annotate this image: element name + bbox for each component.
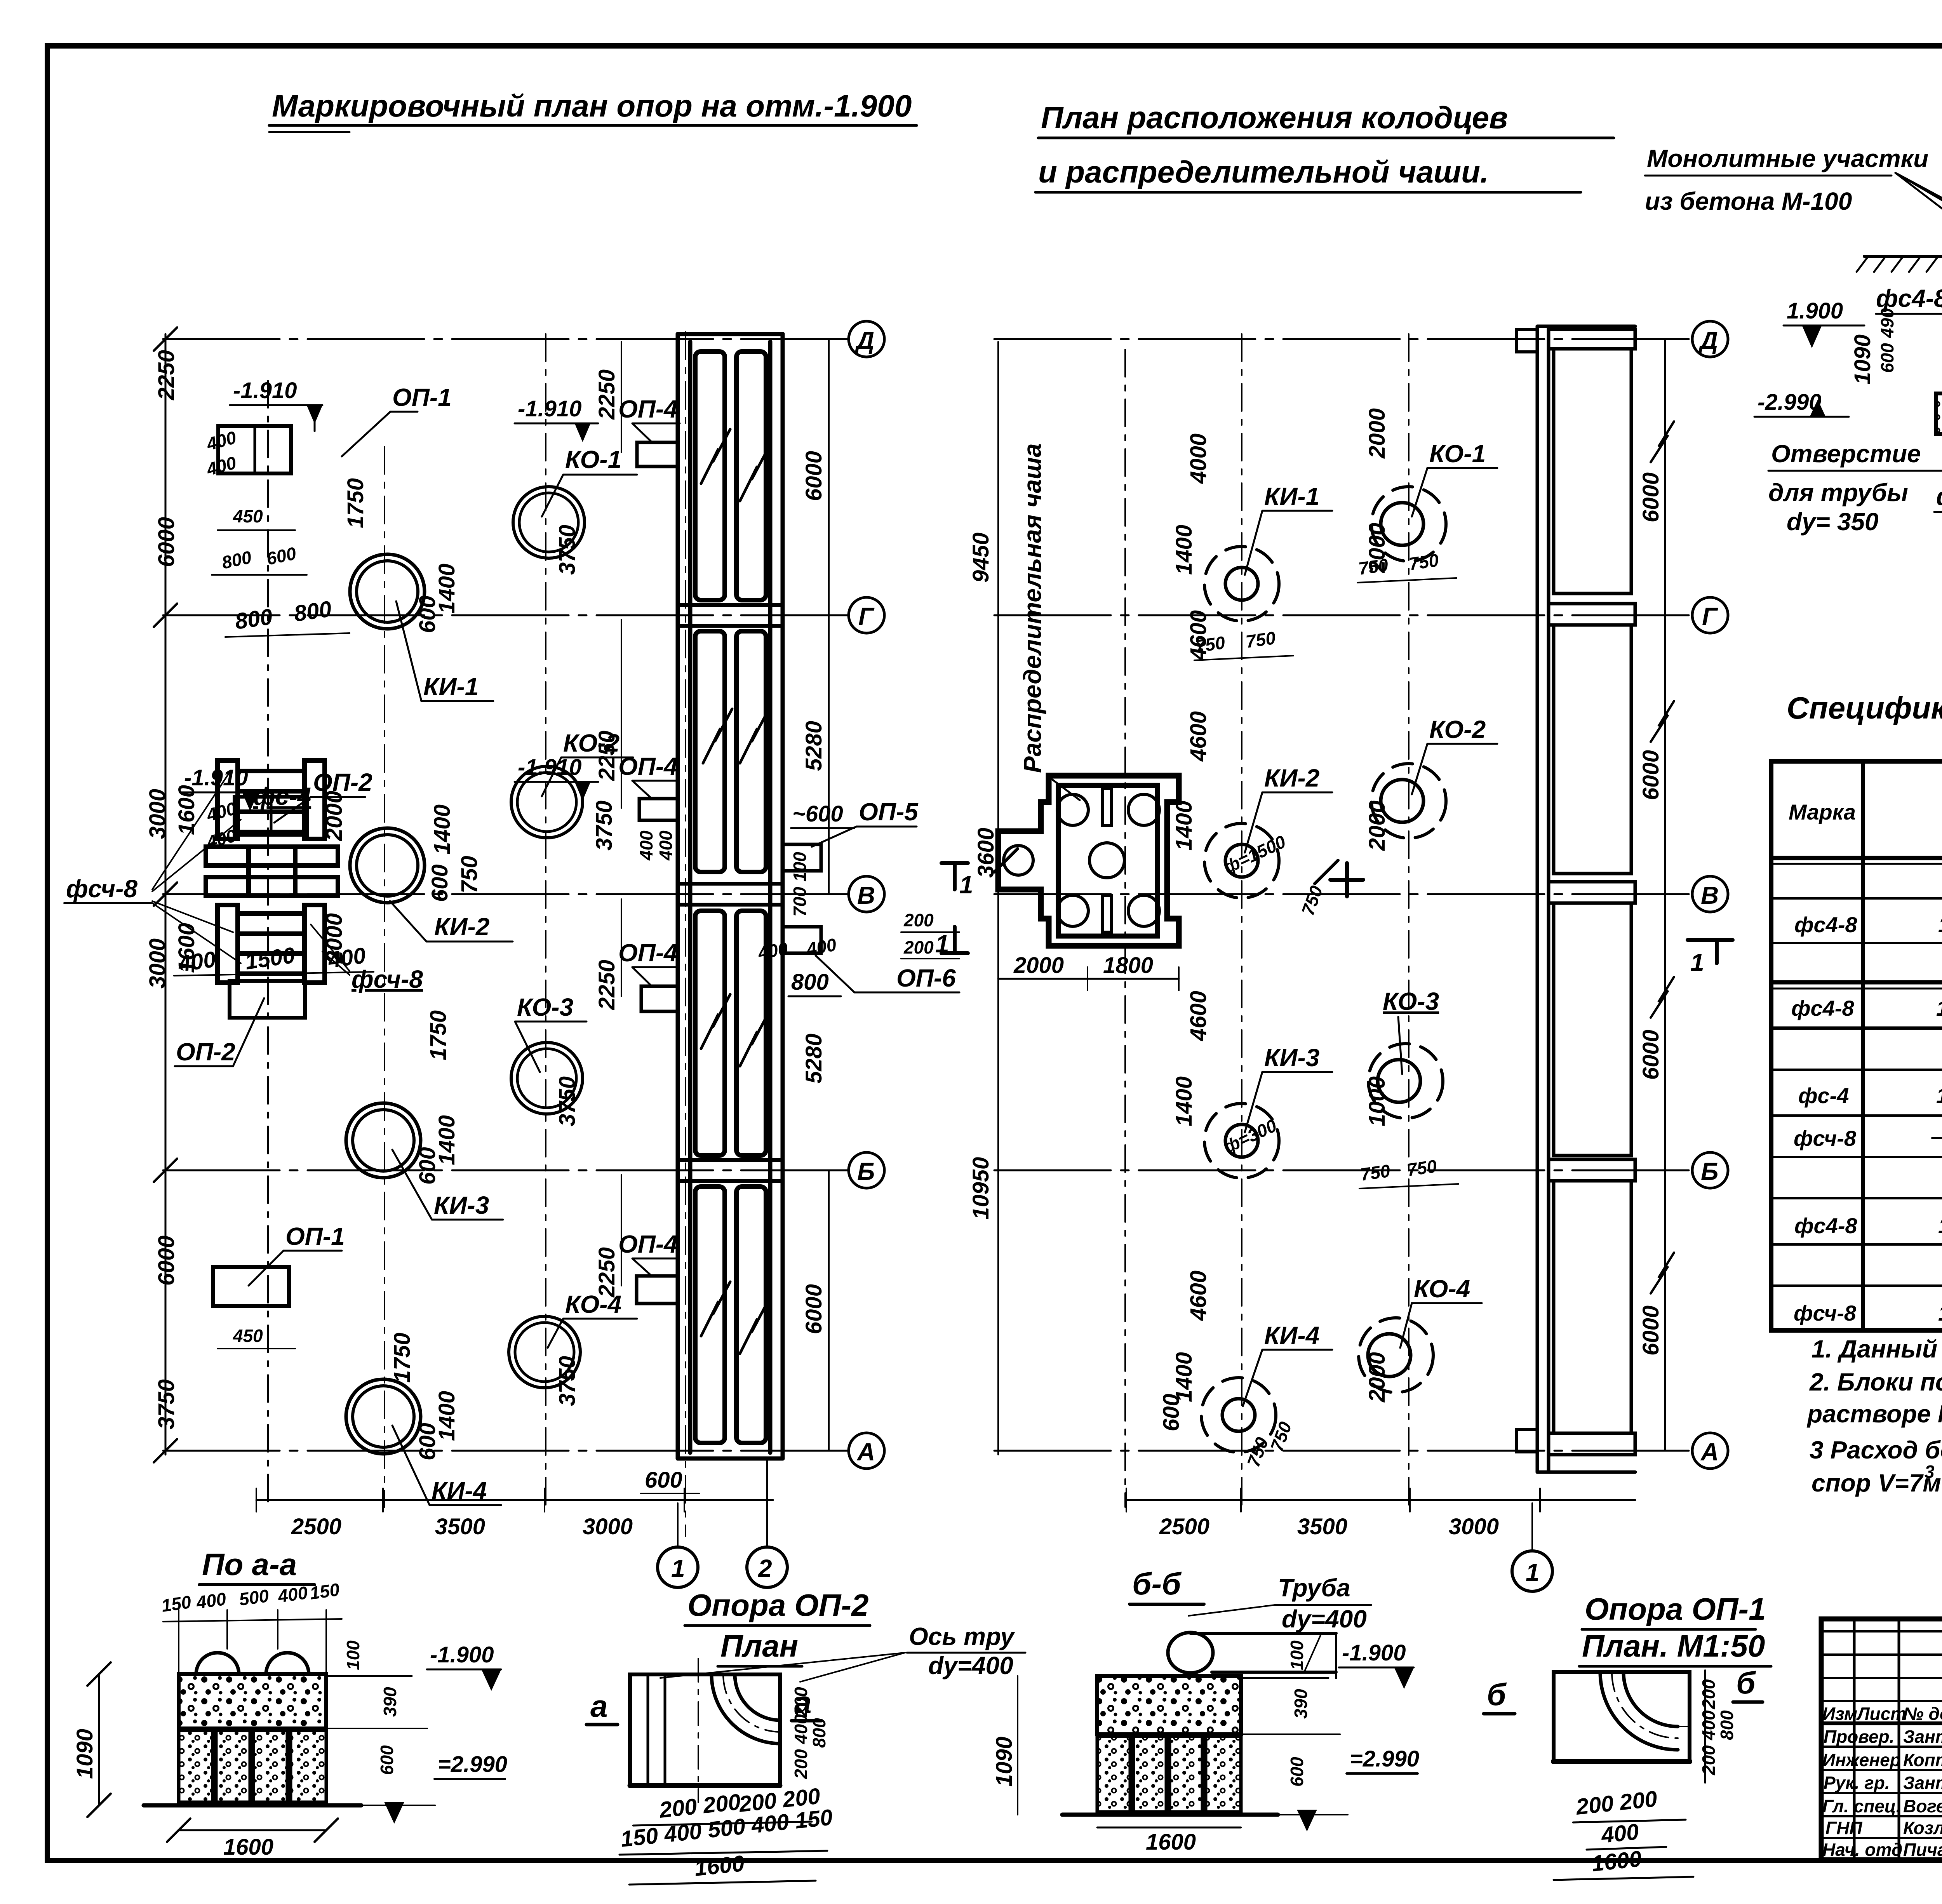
well КО-2 [511, 766, 583, 838]
svg-text:КО-2: КО-2 [1429, 715, 1486, 743]
svg-text:100: 100 [1287, 1640, 1307, 1670]
svg-text:1750: 1750 [390, 1333, 415, 1383]
svg-text:1500: 1500 [244, 943, 297, 975]
svg-text:600: 600 [427, 864, 452, 902]
svg-text:а: а [590, 1689, 608, 1723]
distribution bowl [998, 776, 1179, 946]
svg-text:Г: Г [1702, 602, 1718, 630]
svg-text:400: 400 [791, 1714, 811, 1744]
svg-text:1750: 1750 [343, 478, 368, 528]
svg-text:3000: 3000 [145, 789, 170, 839]
axis Д line [994, 338, 1693, 340]
svg-text:1600: 1600 [1590, 1846, 1643, 1876]
well КО-1 (dashed) [1371, 487, 1446, 561]
svg-text:2250: 2250 [594, 731, 619, 781]
tank cells bay Д-Г [695, 352, 725, 600]
svg-text:1: 1 [1690, 949, 1704, 976]
axis Г circle [849, 597, 884, 633]
svg-text:КИ-1: КИ-1 [423, 673, 479, 701]
svg-text:1.116-1 Выпуск-1: 1.116-1 Выпуск-1 [1936, 1083, 1942, 1108]
svg-text:Г: Г [858, 602, 875, 630]
tank cells bay В-Б [695, 911, 725, 1156]
svg-text:6000: 6000 [1638, 1030, 1664, 1080]
svg-text:6000: 6000 [801, 1284, 827, 1334]
svg-text:КИ-3: КИ-3 [434, 1191, 489, 1219]
well КО-4 [1359, 1318, 1433, 1392]
svg-text:фсч-8: фсч-8 [352, 965, 423, 993]
section mark 1-1 upper [941, 861, 968, 865]
svg-text:№ докум.: № докум. [1903, 1704, 1942, 1724]
tank cells bay Б-А [695, 1187, 725, 1443]
column lines [1861, 761, 1865, 1330]
well КИ-1 [350, 554, 425, 629]
bottom dim chain [1126, 1499, 1635, 1501]
svg-text:4600: 4600 [1186, 711, 1211, 762]
svg-text:1090: 1090 [72, 1729, 97, 1779]
svg-text:Опора ОП-2: Опора ОП-2 [687, 1588, 868, 1622]
svg-text:750: 750 [1267, 1419, 1296, 1454]
right dim chain of strip [828, 339, 830, 894]
svg-text:Б: Б [1701, 1157, 1718, 1185]
svg-text:ОП-4: ОП-4 [618, 752, 678, 780]
bowl circles [1057, 794, 1088, 825]
svg-text:фс4-8: фс4-8 [1876, 284, 1942, 312]
svg-text:1: 1 [1526, 1558, 1540, 1586]
middle tank strip [1537, 326, 1635, 1472]
svg-text:4000: 4000 [1186, 433, 1211, 484]
pipe cylinder [1168, 1632, 1213, 1673]
svg-text:ОП-1: ОП-1 [392, 383, 452, 411]
axis Д circle [849, 321, 884, 357]
bottom thick edge [630, 1783, 780, 1788]
section mark 1-1 below В [1688, 938, 1733, 942]
svg-text:2500: 2500 [1159, 1514, 1209, 1539]
title block outer [1821, 1619, 1942, 1860]
svg-text:500: 500 [238, 1586, 270, 1610]
svg-text:1600: 1600 [174, 785, 199, 835]
svg-text:3000: 3000 [1449, 1514, 1499, 1539]
axis А line [163, 1450, 849, 1452]
svg-text:1.116-1 Выпуск-1: 1.116-1 Выпуск-1 [1936, 996, 1942, 1020]
svg-text:400: 400 [176, 947, 218, 977]
ОП-4 supports on strip [637, 442, 678, 466]
svg-text:Коптев: Коптев [1903, 1750, 1942, 1770]
svg-text:из бетона М-100: из бетона М-100 [1645, 187, 1852, 215]
svg-text:10950: 10950 [968, 1157, 994, 1220]
svg-text:400: 400 [1600, 1819, 1640, 1848]
svg-text:800: 800 [233, 604, 274, 634]
axis В circle [1692, 876, 1728, 912]
svg-text:150: 150 [308, 1579, 341, 1603]
column centerline 1 [1124, 350, 1126, 1507]
svg-text:Д: Д [854, 326, 874, 354]
svg-text:600: 600 [265, 543, 298, 569]
svg-text:5280: 5280 [801, 1034, 827, 1084]
svg-text:600: 600 [415, 595, 440, 633]
left table horizontals [1821, 1630, 1942, 1632]
svg-text:Зантберг: Зантберг [1903, 1773, 1942, 1793]
svg-text:3750: 3750 [154, 1379, 179, 1429]
axis В line [163, 893, 849, 895]
svg-text:600: 600 [1287, 1757, 1307, 1787]
column centerline 2 (KI) [1241, 334, 1242, 1507]
svg-text:800: 800 [1717, 1710, 1737, 1740]
well КО-3 [1368, 1044, 1443, 1118]
svg-text:КИ-2: КИ-2 [434, 913, 489, 941]
svg-text:400: 400 [1698, 1710, 1719, 1740]
ground line left [1864, 255, 1942, 258]
svg-text:4600: 4600 [1186, 610, 1211, 661]
svg-text:Марка: Марка [1789, 800, 1856, 824]
svg-text:для трубы: для трубы [1768, 479, 1908, 506]
svg-text:~600: ~600 [792, 801, 843, 827]
axis band Г [1549, 604, 1635, 625]
axis Б circle [849, 1152, 884, 1188]
plan rect [1554, 1672, 1690, 1761]
support ОП-1 bottom rect [213, 1267, 289, 1306]
svg-text:750: 750 [1359, 1161, 1392, 1185]
svg-text:фс4-8: фс4-8 [1794, 1213, 1857, 1238]
svg-text:490: 490 [1877, 308, 1897, 338]
svg-text:спор V=7м: спор V=7м [1811, 1469, 1941, 1497]
svg-text:1: 1 [671, 1554, 685, 1582]
svg-text:200: 200 [791, 1687, 811, 1717]
bottom dim chain [256, 1499, 773, 1501]
svg-text:1: 1 [935, 930, 949, 958]
concrete stipple [1097, 1676, 1241, 1734]
well КО-4 [509, 1316, 580, 1388]
well КИ-3 [346, 1103, 421, 1178]
svg-text:фс-4: фс-4 [253, 782, 311, 810]
svg-text:План. М1:50: План. М1:50 [1582, 1629, 1765, 1663]
support ОП-2 rect a [235, 797, 307, 835]
svg-text:750: 750 [1298, 883, 1327, 918]
bay cell Б-А [1554, 1181, 1631, 1433]
svg-text:2000: 2000 [322, 791, 347, 841]
tank cells bay Г-В [695, 631, 725, 872]
axis Г line [994, 614, 1693, 616]
svg-text:750: 750 [1406, 1156, 1438, 1180]
svg-text:dy=400: dy=400 [1282, 1605, 1367, 1633]
axis Б line [163, 1170, 849, 1171]
svg-text:Спецификация железобетонных: Спецификация железобетонных и бетонных э… [1787, 691, 1942, 725]
bowl slots [1102, 788, 1112, 825]
svg-text:ОП-2: ОП-2 [176, 1038, 235, 1066]
svg-text:600: 600 [377, 1745, 397, 1775]
svg-text:=2.990: =2.990 [438, 1752, 507, 1777]
svg-text:2000: 2000 [1364, 801, 1390, 851]
svg-text:-1.910: -1.910 [518, 755, 581, 780]
svg-text:1400: 1400 [1171, 525, 1197, 575]
svg-text:400: 400 [656, 830, 676, 861]
svg-text:Пичахчи: Пичахчи [1903, 1840, 1942, 1860]
break marks bay 1 [701, 429, 730, 484]
axis Б line [994, 1170, 1693, 1171]
svg-text:6000: 6000 [154, 1236, 179, 1286]
svg-text:и распределительной чаши.: и распределительной чаши. [1038, 155, 1489, 189]
svg-text:А: А [1700, 1438, 1719, 1466]
svg-text:3750: 3750 [555, 1076, 580, 1126]
svg-text:Ось тру: Ось тру [909, 1622, 1016, 1650]
svg-text:6000: 6000 [154, 517, 179, 567]
svg-text:фс4-8: фс4-8 [1936, 482, 1942, 510]
center line through rect [698, 1659, 699, 1802]
svg-text:1400: 1400 [1171, 1076, 1197, 1126]
svg-text:400: 400 [195, 1589, 228, 1613]
svg-text:КИ-4: КИ-4 [1264, 1321, 1319, 1349]
svg-text:400: 400 [636, 830, 656, 861]
svg-text:700: 700 [790, 887, 810, 917]
svg-text:1.116-1 Выпуск-1: 1.116-1 Выпуск-1 [1938, 912, 1942, 937]
svg-text:450: 450 [233, 506, 263, 526]
ОП-4 stub at Д [1517, 329, 1537, 352]
svg-text:2500: 2500 [291, 1514, 341, 1539]
svg-text:2250: 2250 [154, 350, 179, 400]
svg-text:400: 400 [276, 1582, 309, 1606]
left dim 1090 [98, 1674, 100, 1805]
svg-text:4600: 4600 [1186, 1270, 1211, 1321]
support ОП-2 rect b [230, 981, 305, 1018]
svg-text:КИ-3: КИ-3 [1264, 1044, 1319, 1072]
svg-text:1090: 1090 [1850, 334, 1875, 385]
plan rect [630, 1674, 780, 1786]
svg-text:3750: 3750 [555, 1356, 580, 1406]
svg-text:КИ-2: КИ-2 [1264, 764, 1319, 792]
base line [144, 1803, 361, 1808]
svg-text:100: 100 [343, 1640, 363, 1670]
svg-text:800: 800 [791, 969, 829, 995]
svg-text:=2.990: =2.990 [1350, 1746, 1419, 1772]
axis band Б [1549, 1159, 1635, 1181]
tank strip outer walls [678, 334, 783, 1458]
svg-text:600: 600 [1877, 343, 1897, 373]
axis band А [1549, 1433, 1635, 1455]
axis Г circle [1692, 597, 1728, 633]
svg-text:ОП-4: ОП-4 [618, 939, 678, 967]
svg-text:2250: 2250 [594, 369, 619, 420]
axis В circle [849, 876, 884, 912]
svg-text:КИ-1: КИ-1 [1264, 482, 1319, 510]
right dim chain [1664, 339, 1666, 1451]
svg-text:3500: 3500 [435, 1514, 485, 1539]
svg-text:200: 200 [903, 937, 934, 957]
svg-text:150: 150 [160, 1592, 193, 1616]
svg-text:6000: 6000 [1638, 472, 1664, 522]
section mark 1-1 lower [941, 951, 968, 955]
svg-text:1600: 1600 [693, 1851, 746, 1881]
svg-text:-1.910: -1.910 [233, 378, 297, 403]
well КИ-2 [350, 828, 425, 903]
svg-text:Гл. спец.: Гл. спец. [1822, 1796, 1901, 1816]
svg-text:100: 100 [790, 852, 810, 882]
block row [179, 1730, 326, 1802]
svg-text:А: А [856, 1438, 875, 1466]
svg-text:Нач. отд: Нач. отд [1822, 1840, 1902, 1860]
axis А circle [849, 1433, 884, 1469]
cut marks at bowl row [994, 849, 1018, 872]
left signature table verticals [1853, 1619, 1856, 1860]
svg-text:План расположения колодцев: План расположения колодцев [1041, 100, 1508, 135]
well КО-3 [511, 1043, 583, 1114]
svg-text:Изм: Изм [1822, 1704, 1857, 1724]
svg-text:800: 800 [809, 1718, 829, 1748]
svg-text:Козловская: Козловская [1903, 1818, 1942, 1838]
svg-text:200 200: 200 200 [1575, 1786, 1658, 1820]
svg-text:В: В [1701, 881, 1719, 909]
svg-text:200: 200 [1698, 1679, 1719, 1709]
svg-text:800: 800 [292, 596, 333, 627]
monolithic concrete (stippled) [179, 1674, 326, 1728]
break marks on dim line [1651, 421, 1674, 462]
svg-text:По а-а: По а-а [202, 1547, 297, 1582]
svg-text:1600: 1600 [223, 1834, 273, 1860]
svg-text:3750: 3750 [555, 525, 580, 575]
axis А circle [1692, 1433, 1728, 1469]
svg-text:Д: Д [1698, 326, 1718, 354]
svg-text:6000: 6000 [1638, 750, 1664, 800]
well КИ-4 [346, 1379, 421, 1454]
bay cell Г-В [1554, 625, 1631, 874]
svg-text:ОП-5: ОП-5 [859, 798, 919, 826]
svg-text:Б: Б [857, 1157, 875, 1185]
svg-text:1: 1 [959, 871, 973, 899]
svg-text:-1.900: -1.900 [430, 1642, 494, 1667]
svg-text:Провер.: Провер. [1824, 1726, 1894, 1747]
svg-text:1. Данный лист комплектен с: 1. Данный лист комплектен с листом КЖ-11 [1811, 1335, 1942, 1363]
svg-text:1090: 1090 [992, 1737, 1017, 1787]
svg-text:2. Блоки под опоры уклады: 2. Блоки под опоры укладываются на цемен… [1809, 1368, 1942, 1396]
svg-text:б-б: б-б [1132, 1566, 1182, 1601]
column centerline 3 (KO wells) [545, 334, 546, 1507]
svg-text:фс4-8: фс4-8 [1791, 996, 1854, 1020]
svg-text:1400: 1400 [430, 804, 455, 855]
strip cross walls at axes [678, 605, 783, 1181]
svg-text:6000: 6000 [801, 451, 827, 501]
svg-text:-2.990: -2.990 [1758, 390, 1821, 415]
svg-text:2250: 2250 [594, 1247, 619, 1298]
svg-text:3 Расход бетона М-100 на: 3 Расход бетона М-100 на монолитные учас… [1810, 1436, 1942, 1464]
axis А line [994, 1450, 1693, 1452]
svg-text:3: 3 [1925, 1462, 1935, 1482]
svg-text:450: 450 [233, 1326, 263, 1346]
ОП-3 assembly: blocks around axis В [206, 761, 338, 983]
svg-text:Лист: Лист [1856, 1704, 1906, 1724]
pipe bend arcs [712, 1674, 780, 1744]
ОП-5 supports right of strip [783, 844, 821, 871]
svg-text:Рук. гр.: Рук. гр. [1824, 1773, 1890, 1793]
svg-text:400: 400 [805, 934, 838, 959]
block row [1097, 1736, 1241, 1812]
svg-text:-1.910: -1.910 [518, 396, 581, 421]
svg-text:ф=300: ф=300 [1220, 1115, 1280, 1157]
svg-text:390: 390 [380, 1687, 400, 1717]
svg-text:600: 600 [645, 1467, 682, 1493]
svg-text:б: б [1487, 1677, 1507, 1712]
svg-text:200: 200 [1698, 1745, 1719, 1775]
svg-text:4600: 4600 [1186, 991, 1211, 1041]
well КО-2 [1371, 764, 1446, 838]
svg-text:В: В [857, 881, 875, 909]
cross ticks near КИ-2 [1330, 878, 1363, 882]
svg-text:КО-3: КО-3 [517, 993, 573, 1021]
svg-text:3500: 3500 [1297, 1514, 1347, 1539]
svg-text:3000: 3000 [583, 1514, 633, 1539]
svg-text:600: 600 [415, 1423, 440, 1460]
axis В line [994, 893, 1693, 895]
svg-text:2000: 2000 [1364, 523, 1390, 573]
svg-text:750: 750 [1408, 550, 1440, 574]
column bubbles 1 2 [658, 1547, 698, 1587]
svg-text:Вогеславский: Вогеславский [1903, 1796, 1942, 1816]
svg-text:-1.900: -1.900 [1342, 1640, 1406, 1666]
axis band В [1549, 882, 1635, 903]
svg-text:3750: 3750 [592, 801, 617, 851]
svg-text:1.116-1 Выпуск 1: 1.116-1 Выпуск 1 [1938, 1213, 1942, 1238]
column centerline 1 [267, 381, 269, 1503]
svg-text:б: б [1736, 1666, 1756, 1700]
svg-text:Отверстие: Отверстие [1771, 440, 1921, 468]
strip top cap [1549, 329, 1635, 349]
svg-text:Опора ОП-1: Опора ОП-1 [1585, 1592, 1766, 1626]
svg-text:2000: 2000 [1013, 953, 1064, 978]
table outer frame [1771, 761, 1942, 1330]
axis Д line [163, 338, 849, 340]
well КИ-4 [1201, 1378, 1276, 1452]
svg-text:2: 2 [758, 1554, 772, 1582]
svg-text:ОП-4: ОП-4 [618, 1230, 678, 1258]
bottom dim 1600 [179, 1829, 326, 1831]
svg-text:План: План [720, 1629, 798, 1663]
svg-text:5280: 5280 [801, 721, 827, 771]
svg-text:ОП-4: ОП-4 [618, 395, 678, 423]
support ОП-1 top rect [218, 426, 291, 473]
bottom dim 1600 [1097, 1827, 1241, 1829]
svg-text:3000: 3000 [145, 938, 170, 989]
svg-text:Труба: Труба [1278, 1574, 1350, 1602]
svg-text:фсч-8: фсч-8 [1794, 1126, 1857, 1150]
column centerline 3 (KO) [1408, 334, 1410, 1507]
svg-text:1400: 1400 [1171, 801, 1197, 851]
column bubble 1 [1512, 1551, 1552, 1591]
svg-text:600: 600 [415, 1147, 440, 1185]
axis Д circle [1692, 321, 1728, 357]
svg-text:Инженер: Инженер [1822, 1750, 1901, 1770]
svg-text:КО-1: КО-1 [1429, 440, 1486, 468]
column centerline 4 [685, 332, 686, 1536]
svg-text:КО-3: КО-3 [1383, 987, 1439, 1015]
svg-text:фсч-8: фсч-8 [66, 875, 137, 903]
row lines [1771, 897, 1942, 900]
svg-text:750: 750 [457, 856, 482, 893]
pipe circles on top [196, 1653, 239, 1674]
svg-text:6000: 6000 [1638, 1305, 1664, 1356]
svg-text:Распределительная чаша: Распределительная чаша [1018, 443, 1046, 773]
svg-text:Монолитные участки: Монолитные участки [1647, 144, 1928, 172]
svg-text:400: 400 [204, 452, 238, 479]
svg-text:1.900: 1.900 [1787, 298, 1843, 324]
svg-text:600: 600 [1159, 1394, 1184, 1431]
svg-text:фс-4: фс-4 [1798, 1083, 1849, 1108]
svg-text:dy= 350: dy= 350 [1787, 508, 1879, 536]
column centerline 2 (KI wells) [384, 447, 385, 1507]
svg-text:КО-1: КО-1 [565, 446, 621, 473]
svg-text:растворе М-50.: растворе М-50. [1806, 1400, 1942, 1428]
svg-text:КО-4: КО-4 [1414, 1275, 1470, 1303]
axis Г line [163, 614, 849, 616]
svg-text:2000: 2000 [1364, 408, 1390, 459]
bay cell Д-Г [1554, 349, 1631, 593]
svg-text:ОП-6: ОП-6 [896, 964, 956, 992]
